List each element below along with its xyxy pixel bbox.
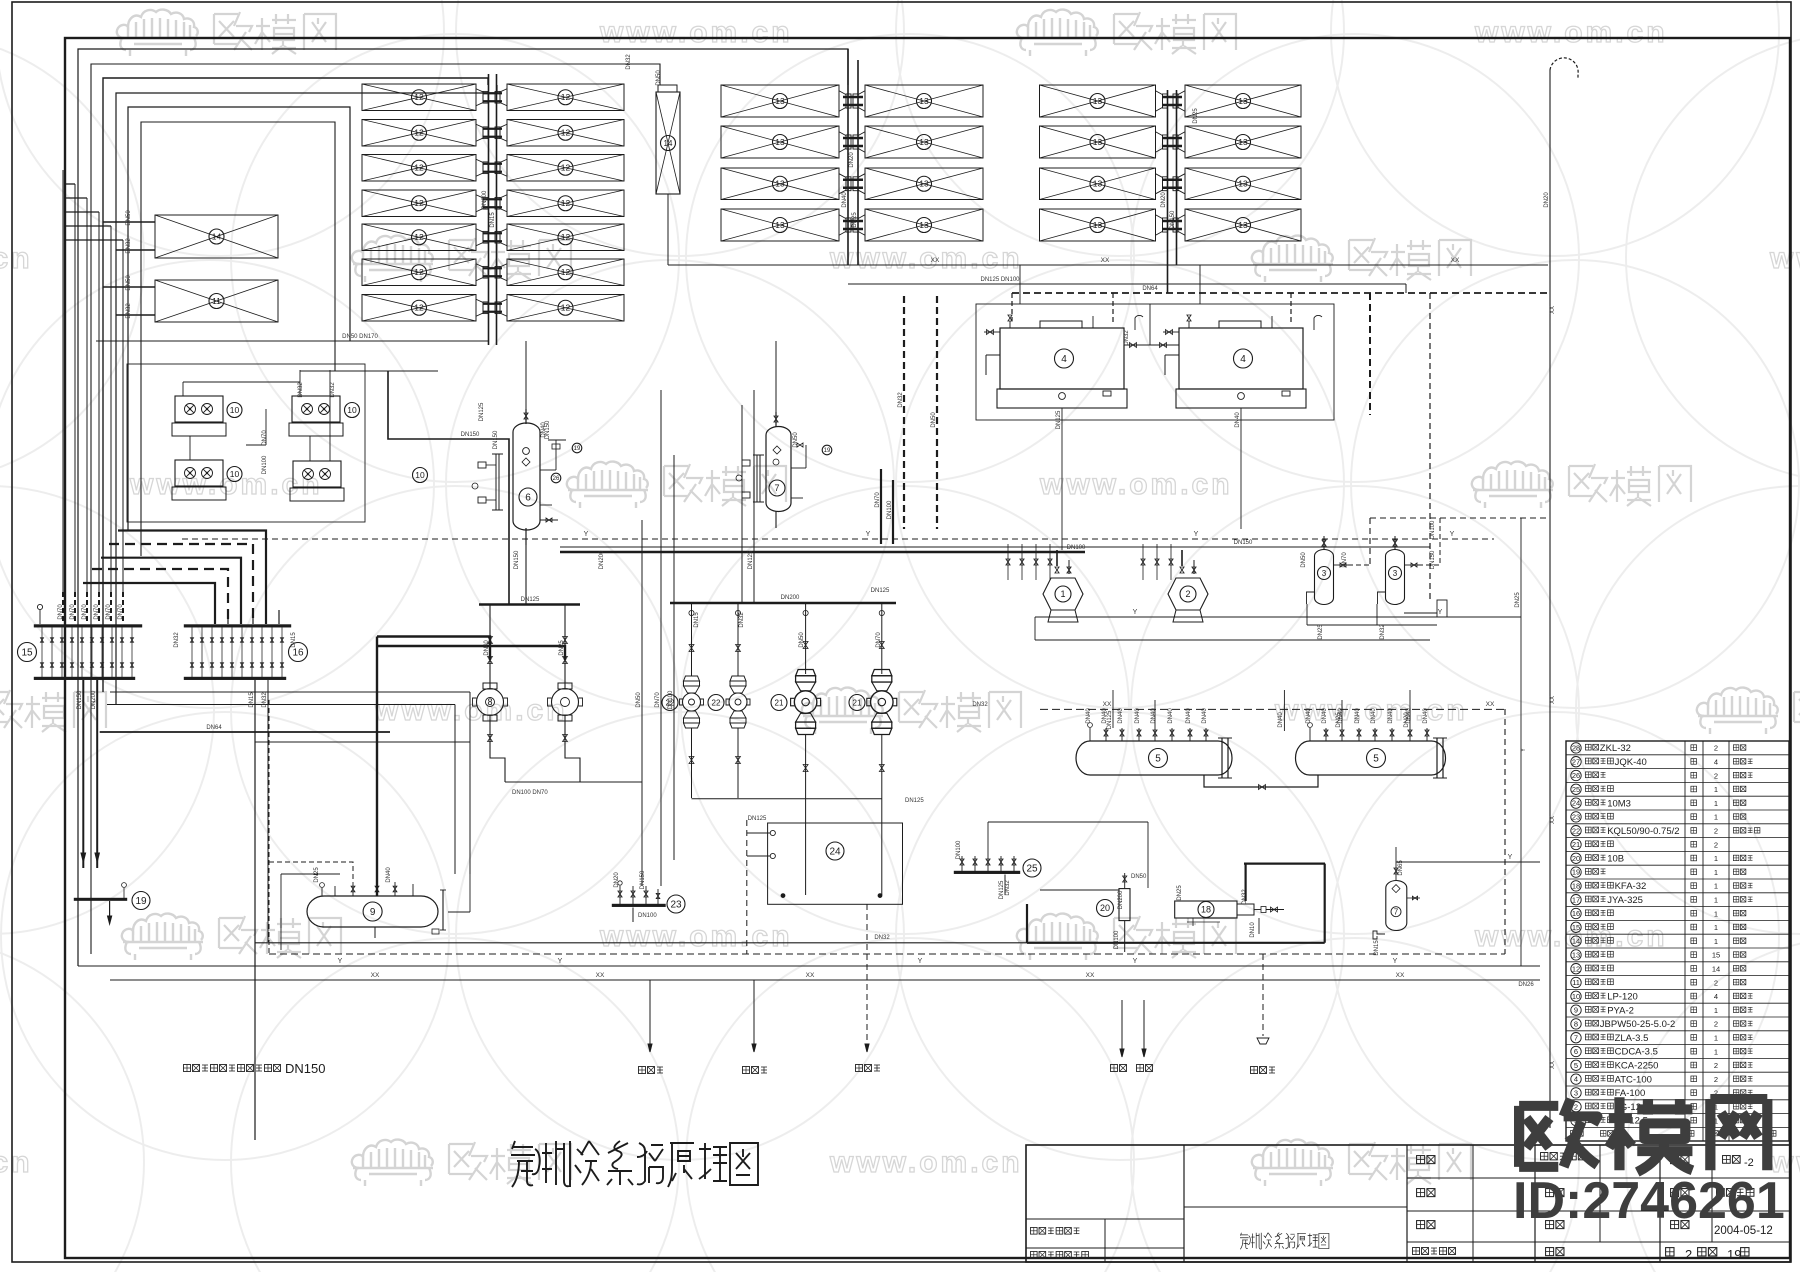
dashed loop at tanks [1113, 293, 1370, 415]
svg-text:10: 10 [415, 470, 425, 480]
svg-text:Y: Y [1194, 531, 1199, 538]
svg-text:DN125 DN100: DN125 DN100 [980, 277, 1020, 283]
svg-text:14: 14 [664, 139, 673, 148]
svg-text:8: 8 [1574, 1020, 1578, 1029]
svg-text:2: 2 [1714, 840, 1718, 849]
vertical condenser 14 [656, 85, 680, 194]
compressor unit 1 [1043, 550, 1083, 622]
separator bottom piping [1307, 600, 1447, 640]
svg-text:DN32: DN32 [174, 632, 180, 648]
svg-text:Y: Y [866, 531, 871, 538]
label overflow pipe [743, 1067, 768, 1074]
fan cooler 10 unit A [172, 396, 242, 436]
pipe dashed y293 [1012, 286, 1548, 321]
svg-text:2: 2 [1714, 1061, 1718, 1070]
pipes to condenser 14 [103, 210, 155, 254]
svg-text:13: 13 [1093, 137, 1103, 147]
svg-text:DN150: DN150 [1234, 540, 1253, 546]
svg-text:XX: XX [1103, 701, 1112, 708]
svg-text:10M3: 10M3 [1607, 798, 1631, 809]
svg-text:18: 18 [1201, 905, 1211, 915]
water trough drop [1257, 954, 1269, 1044]
drain run y692 [110, 692, 470, 874]
water tank 4 #1 [984, 315, 1143, 408]
title block left labels [1030, 1227, 1088, 1258]
equipment table rows [1570, 743, 1776, 1136]
bank 13A header stubs [843, 97, 863, 229]
svg-text:13: 13 [1093, 220, 1103, 230]
svg-text:DN70: DN70 [876, 632, 882, 648]
title block col2 labels [1541, 1153, 1586, 1256]
condenser top laterals [1035, 617, 1430, 640]
svg-text:11: 11 [212, 296, 221, 306]
riser pair x754 [742, 390, 754, 603]
svg-text:DN100: DN100 [1067, 545, 1086, 551]
label water trough [1251, 1067, 1276, 1074]
header DN200 [670, 588, 896, 603]
outlet drops [1120, 1000, 1146, 1057]
bank 13B header stubs [1162, 97, 1182, 229]
condenser 11 horizontal [155, 280, 278, 322]
svg-text:4: 4 [1061, 354, 1067, 365]
svg-text:DN125: DN125 [748, 550, 754, 569]
svg-text:15: 15 [21, 648, 33, 659]
svg-text:Y: Y [918, 958, 923, 965]
svg-text:DN70: DN70 [94, 604, 100, 620]
svg-text:1: 1 [1714, 868, 1718, 877]
svg-text:13: 13 [1572, 951, 1580, 960]
bottom dashed main y954 [269, 953, 1505, 955]
svg-text:DN32: DN32 [298, 382, 304, 398]
oil separator 3 #2 [1378, 536, 1420, 605]
ammonia pump 22 #2 [708, 603, 750, 798]
svg-text:JYA-325: JYA-325 [1607, 895, 1643, 906]
svg-text:DN150: DN150 [1170, 210, 1176, 229]
pipe loop L1 (outermost) [78, 49, 848, 966]
tank 9 enclosure dashed [269, 700, 353, 954]
svg-text:DN40: DN40 [1135, 708, 1141, 724]
svg-text:20: 20 [1100, 903, 1110, 913]
station 15 gauge stub [37, 604, 42, 624]
svg-text:DN15: DN15 [694, 612, 700, 628]
svg-text:2: 2 [1714, 744, 1718, 753]
svg-text:10: 10 [347, 405, 357, 415]
svg-text:CDCA-3.5: CDCA-3.5 [1615, 1047, 1658, 1058]
svg-text:DN32: DN32 [626, 54, 632, 70]
svg-text:14: 14 [1572, 937, 1580, 946]
svg-text:DN40: DN40 [842, 192, 848, 208]
svg-text:DN200: DN200 [599, 550, 605, 569]
pipe y341 [96, 334, 489, 341]
svg-text:12: 12 [561, 92, 571, 102]
riser x661 [660, 390, 662, 886]
regulating station 15 [18, 625, 143, 680]
svg-text:5: 5 [1373, 754, 1379, 765]
low-pressure circulator 6 [513, 409, 540, 545]
liquid main y544 [560, 540, 1430, 547]
svg-text:DN125: DN125 [748, 816, 767, 822]
brine tank 24 [747, 798, 924, 904]
pump 8 #2 [548, 605, 583, 782]
svg-text:DN25: DN25 [1336, 712, 1342, 728]
svg-text:DN25: DN25 [314, 867, 320, 883]
svg-text:3: 3 [1393, 569, 1398, 578]
gauge label 19 at vessel 7 [822, 445, 832, 455]
title block col1 labels [1413, 1156, 1456, 1255]
svg-text:28: 28 [1572, 744, 1580, 753]
bottom main y980 XX [110, 972, 1540, 988]
svg-text:Y: Y [558, 958, 563, 965]
svg-text:6: 6 [1574, 1047, 1578, 1056]
bottom main y966 Y [78, 958, 1540, 966]
svg-text:12: 12 [1572, 964, 1580, 973]
svg-text:DN32: DN32 [972, 702, 988, 708]
svg-text:16: 16 [1572, 909, 1580, 918]
svg-text:DN32: DN32 [1124, 330, 1130, 346]
svg-text:XX: XX [1101, 257, 1110, 264]
drain drop 1 [648, 980, 652, 1052]
svg-text:XX: XX [1550, 1061, 1556, 1069]
svg-text:DN150: DN150 [461, 432, 480, 438]
svg-text:DN50: DN50 [656, 70, 662, 86]
vessel 6 level gauge [472, 454, 503, 510]
title block drawing name [1240, 1233, 1329, 1250]
svg-text:8: 8 [487, 697, 492, 707]
evaporator bank 12 - right column [495, 84, 624, 321]
hot-gas dashed riser A [903, 296, 905, 529]
svg-text:DN70: DN70 [82, 604, 88, 620]
compressor unit 2 [1168, 550, 1208, 622]
svg-text:DN125: DN125 [1107, 710, 1113, 729]
tank 9 box lines [281, 874, 470, 950]
svg-text:XX: XX [1550, 696, 1556, 704]
svg-text:14: 14 [1712, 965, 1720, 974]
svg-text:DN32: DN32 [1005, 880, 1011, 896]
svg-text:DN20: DN20 [1544, 192, 1550, 208]
dark watermark id text [1513, 1172, 1785, 1230]
pipes to condenser 11 [103, 275, 155, 319]
evaporator bank 12 - left column [362, 84, 488, 321]
bundle top corners [65, 184, 123, 240]
svg-text:DN50: DN50 [636, 692, 642, 708]
svg-text:DN32: DN32 [126, 303, 132, 319]
svg-text:XX: XX [931, 257, 940, 264]
svg-text:10B: 10B [1607, 854, 1624, 865]
equipment table frame [1566, 741, 1789, 1141]
svg-text:DN40: DN40 [484, 640, 490, 656]
svg-text:12: 12 [561, 198, 571, 208]
svg-text:DN40: DN40 [1355, 708, 1361, 724]
svg-text:DN125: DN125 [521, 597, 540, 603]
collecting vessel 20 [1040, 873, 1147, 954]
svg-text:DN15: DN15 [249, 692, 255, 708]
right Y riser x1521 [1521, 518, 1527, 966]
svg-text:12: 12 [561, 267, 571, 277]
svg-text:DN25: DN25 [852, 212, 858, 228]
svg-text:11: 11 [1572, 978, 1580, 987]
svg-text:DN150: DN150 [285, 1061, 325, 1076]
svg-text:XX: XX [1486, 701, 1495, 708]
heavy line y732 [97, 680, 390, 732]
ammonia pump 21 #1 [771, 603, 821, 895]
bank 12 riser pair [489, 74, 497, 345]
svg-text:2: 2 [1714, 771, 1718, 780]
high pressure station 25 [954, 822, 1148, 896]
svg-text:ID:2746261: ID:2746261 [1513, 1172, 1785, 1230]
svg-text:21: 21 [775, 698, 784, 707]
svg-text:24: 24 [1572, 799, 1580, 808]
vessel 7 level gauge [736, 455, 764, 502]
svg-text:XX: XX [596, 972, 605, 979]
manifold riser bundle [63, 170, 123, 624]
vessel 7 side piping [791, 432, 806, 498]
svg-text:Y: Y [1133, 609, 1138, 616]
svg-text:XX: XX [1451, 257, 1460, 264]
receiver 17 [1373, 860, 1420, 956]
svg-text:DN40: DN40 [1371, 708, 1377, 724]
svg-text:DN100: DN100 [1430, 520, 1436, 539]
svg-text:DN15: DN15 [1374, 940, 1380, 956]
svg-text:DN70: DN70 [58, 604, 64, 620]
svg-text:DN100: DN100 [956, 840, 962, 859]
svg-text:DN40: DN40 [386, 867, 392, 883]
svg-text:DN20: DN20 [1404, 712, 1410, 728]
svg-text:DN20: DN20 [1161, 192, 1167, 208]
svg-text:DN25: DN25 [1318, 624, 1324, 640]
svg-text:DN200: DN200 [1118, 890, 1124, 909]
riser x255 [254, 680, 256, 1140]
fan cooler 10 unit B [289, 396, 360, 436]
svg-text:Y: Y [1450, 531, 1455, 538]
svg-text:12: 12 [561, 303, 571, 313]
svg-text:13: 13 [1093, 96, 1103, 106]
svg-text:DN200: DN200 [91, 690, 97, 709]
bank 13B riser pair [1168, 90, 1177, 293]
svg-text:DN20: DN20 [849, 152, 855, 168]
svg-text:10: 10 [230, 469, 240, 479]
gauge label 26 at vessel 6 [551, 473, 561, 483]
svg-text:1: 1 [1714, 854, 1718, 863]
svg-text:DN70: DN70 [262, 430, 268, 446]
svg-text:DN100: DN100 [887, 500, 893, 519]
svg-text:5: 5 [1574, 1061, 1578, 1070]
riser x642 [641, 520, 643, 886]
svg-text:XX: XX [371, 972, 380, 979]
svg-text:DN50: DN50 [931, 412, 937, 428]
label drain pipe [639, 1067, 664, 1074]
svg-text:DN50: DN50 [793, 432, 799, 448]
header DN125 [479, 545, 580, 605]
svg-text:DN40: DN40 [541, 422, 547, 438]
svg-text:Y: Y [1438, 609, 1443, 616]
svg-text:DN100 DN70: DN100 DN70 [512, 790, 548, 796]
svg-text:DN32: DN32 [126, 238, 132, 254]
svg-text:13: 13 [775, 137, 785, 147]
svg-text:DN40: DN40 [1086, 708, 1092, 724]
hot-gas dashed riser B [936, 296, 938, 529]
svg-text:DN200: DN200 [781, 595, 800, 601]
svg-text:DN40: DN40 [1202, 708, 1208, 724]
drain header 19 [74, 883, 127, 924]
pipe loop L6 [141, 122, 335, 556]
condenser bank 13B - right column [1173, 85, 1301, 241]
svg-text:ZLA-3.5: ZLA-3.5 [1615, 1033, 1649, 1044]
svg-text:1: 1 [1714, 1047, 1718, 1056]
pipe loop L2 [91, 64, 660, 954]
suction heavy pair [881, 469, 893, 544]
svg-text:7: 7 [774, 483, 779, 493]
svg-text:12: 12 [414, 232, 424, 242]
ammonia pump 21 #2 [849, 603, 897, 895]
condenser feed risers [1113, 690, 1410, 731]
station 15 risers [58, 604, 124, 620]
riser x674 [673, 455, 675, 860]
tank enclosure [976, 304, 1334, 420]
pump 8 discharge run [505, 782, 642, 796]
air separator 18 [1175, 885, 1284, 938]
svg-text:20: 20 [1572, 854, 1580, 863]
svg-text:Y: Y [1521, 748, 1527, 752]
svg-text:19: 19 [1572, 868, 1580, 877]
fan area enclosure [127, 364, 365, 522]
svg-text:DN125: DN125 [1056, 410, 1062, 429]
pipe loop L4 [116, 85, 497, 704]
svg-text:DN125: DN125 [479, 402, 485, 421]
svg-text:1: 1 [1060, 589, 1065, 599]
svg-text:1: 1 [1714, 896, 1718, 905]
svg-text:9: 9 [370, 907, 376, 918]
svg-text:DN50: DN50 [126, 275, 132, 291]
svg-text:DN40: DN40 [1151, 708, 1157, 724]
svg-text:DN200: DN200 [482, 190, 488, 209]
evaporative condenser 5 #2 [1296, 708, 1447, 778]
pipe loop L5 [128, 107, 350, 530]
svg-text:3: 3 [1574, 1089, 1578, 1098]
svg-text:DN32: DN32 [330, 382, 336, 398]
svg-text:16: 16 [292, 648, 304, 659]
svg-text:23: 23 [670, 900, 682, 911]
svg-text:DN125: DN125 [871, 588, 890, 594]
fan cooler 10 unit C [172, 460, 242, 500]
svg-text:Y: Y [1133, 958, 1138, 965]
station 16 risers [215, 610, 279, 624]
svg-text:DN32: DN32 [874, 935, 890, 941]
svg-text:1: 1 [1714, 799, 1718, 808]
city water drop [865, 904, 869, 1052]
svg-text:Y: Y [1393, 958, 1398, 965]
svg-text:2: 2 [1714, 1020, 1718, 1029]
pipe main y284 [848, 277, 1406, 293]
svg-text:13: 13 [1238, 220, 1248, 230]
svg-text:1: 1 [1714, 937, 1718, 946]
svg-text:12: 12 [414, 163, 424, 173]
svg-text:13: 13 [919, 96, 929, 106]
svg-text:21: 21 [853, 698, 862, 707]
svg-text:23: 23 [1572, 813, 1580, 822]
svg-text:2: 2 [1714, 978, 1718, 987]
svg-text:DN40: DN40 [1322, 708, 1328, 724]
svg-text:15: 15 [1712, 951, 1720, 960]
title block frame [1026, 1145, 1790, 1262]
condenser bank 13A - left column [721, 85, 851, 241]
svg-text:Y: Y [338, 958, 343, 965]
title block values [1666, 1156, 1773, 1262]
svg-text:DN100: DN100 [262, 455, 268, 474]
svg-text:19: 19 [1727, 1247, 1741, 1262]
svg-text:DN150: DN150 [493, 430, 499, 449]
svg-text:DN150: DN150 [1430, 550, 1436, 569]
vessel 6 top pipe [525, 341, 527, 409]
svg-text:12: 12 [561, 128, 571, 138]
svg-text:DN50: DN50 [1131, 874, 1147, 880]
svg-text:-2: -2 [1744, 1157, 1754, 1169]
defrost station 23 [612, 881, 685, 922]
tank interconnect valves [1124, 304, 1179, 347]
svg-text:1: 1 [1714, 923, 1718, 932]
ammonia pump 22 #1 [662, 603, 704, 798]
svg-text:DN125: DN125 [905, 798, 924, 804]
liquid header steps [83, 531, 266, 625]
drain run y704 [107, 705, 455, 875]
evaporative condenser 5 #1 [1076, 708, 1232, 778]
svg-text:DN26: DN26 [1518, 982, 1534, 988]
hexagon feed valves [1006, 544, 1173, 580]
svg-text:21: 21 [1572, 840, 1580, 849]
svg-text:15: 15 [1572, 923, 1580, 932]
fan cooler 10 unit D [290, 461, 428, 501]
svg-text:DN70: DN70 [1342, 552, 1348, 568]
svg-text:2: 2 [1714, 827, 1718, 836]
svg-text:XX: XX [1396, 972, 1405, 979]
svg-text:ZKL-32: ZKL-32 [1600, 743, 1631, 754]
svg-text:13: 13 [1093, 179, 1103, 189]
label city water [856, 1065, 881, 1072]
hot gas main dashed y529 [182, 531, 1494, 539]
oil separator 3 #1 [1307, 536, 1349, 605]
svg-text:DN40: DN40 [1168, 708, 1174, 724]
svg-text:DN25: DN25 [1515, 592, 1521, 608]
svg-text:17: 17 [1572, 895, 1580, 904]
svg-text:5: 5 [1155, 754, 1161, 765]
svg-text:DN10: DN10 [1250, 922, 1256, 938]
svg-text:Y: Y [584, 531, 589, 538]
svg-text:LP-120: LP-120 [1607, 992, 1638, 1003]
receiver tank 9 [307, 867, 446, 938]
svg-text:25: 25 [1572, 785, 1580, 794]
svg-text:DN25: DN25 [1177, 885, 1183, 901]
svg-text:13: 13 [775, 179, 785, 189]
svg-text:1: 1 [1714, 909, 1718, 918]
riser x268 [267, 680, 269, 942]
svg-text:PYA-2: PYA-2 [1607, 1005, 1634, 1016]
svg-text:13: 13 [775, 96, 785, 106]
svg-text:DN70: DN70 [875, 492, 881, 508]
svg-text:DN50: DN50 [1301, 552, 1307, 568]
svg-text:7: 7 [1394, 908, 1399, 917]
Y line y862 [1396, 847, 1540, 862]
svg-text:12: 12 [414, 92, 424, 102]
intercooler 7 [766, 341, 791, 528]
svg-text:3: 3 [1322, 569, 1327, 578]
svg-text:2: 2 [1685, 1247, 1692, 1262]
svg-text:12: 12 [414, 128, 424, 138]
svg-text:27: 27 [1572, 757, 1580, 766]
svg-text:DN40: DN40 [1118, 708, 1124, 724]
svg-text:22: 22 [1572, 826, 1580, 835]
heavy feeds to pumps [377, 637, 565, 897]
svg-text:DN50 DN170: DN50 DN170 [342, 334, 378, 340]
svg-text:XX: XX [1550, 816, 1556, 824]
